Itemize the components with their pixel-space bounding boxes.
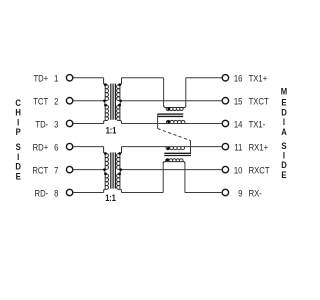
vertical label MEDIA SIDE — [281, 86, 287, 180]
CM1 lower winding (TX- path), teeth up — [166, 120, 184, 123]
CM2 lower winding (RX- path), teeth up — [163, 162, 185, 164]
svg-text:RXCT: RXCT — [249, 165, 271, 176]
svg-text:1:1: 1:1 — [105, 192, 116, 203]
svg-text:TD-: TD- — [35, 119, 48, 130]
dashed core-link between CM1 core and CM2 core — [158, 114, 191, 153]
wire RX-: T2 right bottom to CM2 left vertical — [121, 192, 163, 194]
svg-text:15: 15 — [234, 96, 243, 107]
vertical label CHIP SIDE — [15, 97, 21, 181]
wire RX1+: T2 right top through CM2 upper winding to pin 11 — [122, 146, 223, 148]
dashed diagonal — [158, 129, 191, 141]
svg-text:RD+: RD+ — [33, 142, 49, 153]
wire T1 right top to CM1 left vertical — [122, 77, 164, 79]
svg-text:A: A — [281, 126, 287, 137]
transformer T2 (bottom, 1:1) — [103, 147, 122, 193]
svg-text:1:1: 1:1 — [106, 125, 117, 136]
svg-text:14: 14 — [234, 119, 243, 130]
pin circles right: pins 16,15,14,11,10,9 — [222, 75, 228, 196]
svg-text:RD-: RD- — [35, 188, 49, 199]
wire pin8 to T2 left bottom — [73, 192, 103, 194]
wires — [73, 78, 222, 193]
svg-text:TD+: TD+ — [33, 73, 48, 84]
svg-text:TCT: TCT — [33, 96, 49, 107]
CM1 right vertical (TX+ rise) — [185, 78, 187, 107]
wire RXCT: T2 center tap to pin 10 — [121, 169, 223, 171]
transformer T1 (top, 1:1) — [103, 78, 122, 124]
pin circles left: pins 1,2,3,6,7,8 — [66, 75, 72, 196]
svg-text:9: 9 — [238, 188, 242, 199]
CM2 upper winding (RX+ path), teeth down — [166, 147, 184, 150]
svg-text:TX1+: TX1+ — [249, 73, 268, 84]
solid stub down from CM1 core left end (crosses TX1- wire) — [157, 114, 159, 128]
svg-text:RX-: RX- — [249, 188, 262, 199]
wire pin2 to T1 center tap — [73, 100, 104, 102]
svg-text:7: 7 — [54, 165, 58, 176]
CM1 core (2 lines) — [158, 114, 184, 116]
wire TX1-: T1 right bottom through CM1 lower winding to pin 14 — [121, 123, 222, 125]
common-mode choke CM2 (RX side) — [163, 147, 185, 164]
CM2 phase dots — [167, 147, 170, 150]
CM2 left vertical — [162, 162, 164, 193]
svg-text:3: 3 — [54, 119, 58, 130]
right pin labels — [234, 73, 270, 199]
svg-text:16: 16 — [234, 73, 243, 84]
wire pin1 to T1 left top — [73, 77, 103, 79]
wire TXCT: T1 center tap to pin 15 — [121, 100, 223, 102]
CM2 core (2 lines) — [164, 153, 191, 155]
svg-text:TX1-: TX1- — [249, 119, 266, 130]
svg-text:1: 1 — [54, 73, 58, 84]
wire CM1 right vertical to pin 16 — [186, 77, 222, 79]
svg-text:10: 10 — [234, 165, 243, 176]
svg-text:RX1+: RX1+ — [249, 142, 268, 153]
CM1 upper winding (TX+ path), teeth down — [164, 105, 186, 107]
svg-text:TXCT: TXCT — [249, 96, 270, 107]
left pin labels — [32, 73, 58, 199]
wire pin6 to T2 left top — [73, 146, 103, 148]
CM1 left vertical (TX+ drop) — [163, 78, 165, 107]
svg-text:E: E — [16, 171, 21, 182]
solid stub down to CM2 core right end (crosses RX1+ wire) — [190, 141, 192, 154]
svg-text:M: M — [281, 86, 287, 97]
svg-text:8: 8 — [54, 188, 58, 199]
CM2 right vertical — [184, 162, 186, 193]
svg-text:11: 11 — [234, 142, 242, 153]
svg-text:E: E — [281, 169, 286, 180]
CM1 phase dots — [167, 107, 170, 110]
wire pin7 to T2 center tap — [73, 169, 104, 171]
svg-text:RCT: RCT — [32, 165, 48, 176]
svg-text:2: 2 — [54, 96, 58, 107]
wire pin3 to T1 left bottom — [73, 123, 103, 125]
wire CM2 right vertical to pin 9 — [185, 192, 222, 194]
svg-text:P: P — [16, 126, 21, 137]
common-mode choke CM1 (TX side) — [164, 105, 186, 123]
svg-text:6: 6 — [54, 142, 58, 153]
